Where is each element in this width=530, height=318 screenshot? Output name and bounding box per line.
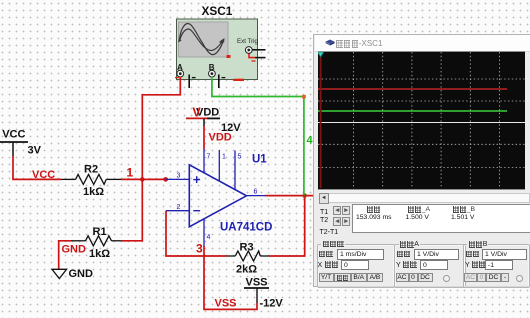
mode buttons row [319,273,334,283]
wire scope B green net 4 [212,77,304,195]
pin 1 [218,150,220,182]
svg-text:3: 3 [177,173,181,180]
svg-text:VSS: VSS [215,298,237,310]
wire VCC to R2 [12,178,61,180]
wire node3 to R3 [204,255,227,257]
scope x axis [318,122,525,124]
scope graph screen [318,51,525,190]
wire pin4 to VSS [204,246,257,309]
pin 3 stub [166,178,190,180]
pin 2 stub [166,210,189,212]
power VCC 3V [0,129,42,157]
measurement readout panel [352,204,530,233]
svg-text:5: 5 [238,154,242,161]
svg-text:GND: GND [62,244,87,256]
resistor R3 [227,242,270,276]
svg-text:1kΩ: 1kΩ [89,248,110,260]
trace channel A [318,88,507,90]
pin 4 [203,219,205,246]
svg-text:7: 7 [207,154,211,161]
svg-text:3V: 3V [28,145,42,157]
pin 7 [203,149,205,173]
svg-text:1kΩ: 1kΩ [83,186,104,198]
svg-text:R3: R3 [240,242,254,254]
resistor R1 [71,226,121,260]
group box channel B [463,244,530,288]
svg-text:6: 6 [254,189,258,196]
wire node1 down to R1 [121,179,142,240]
svg-text:2kΩ: 2kΩ [236,264,257,276]
oscilloscope window 示波器-XSC1 [313,34,530,287]
wire scope A to node 1 [142,77,180,180]
wire R2 to op-amp node 1 [121,178,166,180]
trace channel B [318,110,507,112]
svg-text:VCC: VCC [2,129,25,141]
group box channel A [394,244,466,288]
wire output to scope [265,195,317,197]
svg-text:-12V: -12V [260,298,284,310]
window title bar [315,35,530,52]
wire R1 to ground [59,241,71,269]
junction node 1 [140,177,145,182]
svg-text:2: 2 [177,204,181,211]
wire pin2 to node 3 [166,211,204,256]
group box timebase [317,244,395,288]
svg-text:1: 1 [127,166,134,180]
power VDD 12V [186,106,241,144]
cursor T [320,52,322,188]
junction output node [302,193,307,198]
scrollbar [318,193,530,203]
power VSS -12V [215,277,284,310]
junction at pin3 wire [163,177,168,182]
svg-text:R1: R1 [93,226,107,238]
svg-text:U1: U1 [252,154,267,166]
svg-text:1: 1 [222,154,226,161]
resistor R2 [61,164,121,199]
svg-text:XSC1: XSC1 [202,4,233,18]
scale row [319,251,334,260]
waypoint green wire [302,95,306,99]
svg-text:R2: R2 [84,164,98,176]
op-amp U1 UA741CD [189,154,272,234]
ground symbol [52,268,93,280]
svg-text:Ext Trig: Ext Trig [237,38,259,45]
pin 5 [234,151,236,191]
svg-text:VCC: VCC [32,169,55,181]
oscilloscope instrument XSC1 [175,4,266,88]
svg-text:GND: GND [69,268,94,280]
T1 T2 cursor controls [320,209,328,217]
wire VCC net [12,156,14,179]
svg-text:V: V [192,106,201,120]
svg-text:3: 3 [196,242,203,256]
wire R3 to output [269,196,305,256]
svg-text:VDD: VDD [209,132,232,144]
wire VDD to pin7 [203,126,205,150]
position row [318,261,339,270]
svg-text:4: 4 [207,234,211,241]
svg-text:UA741CD: UA741CD [220,222,272,234]
svg-text:VSS: VSS [246,277,268,289]
pin 6 output stub [247,195,266,197]
